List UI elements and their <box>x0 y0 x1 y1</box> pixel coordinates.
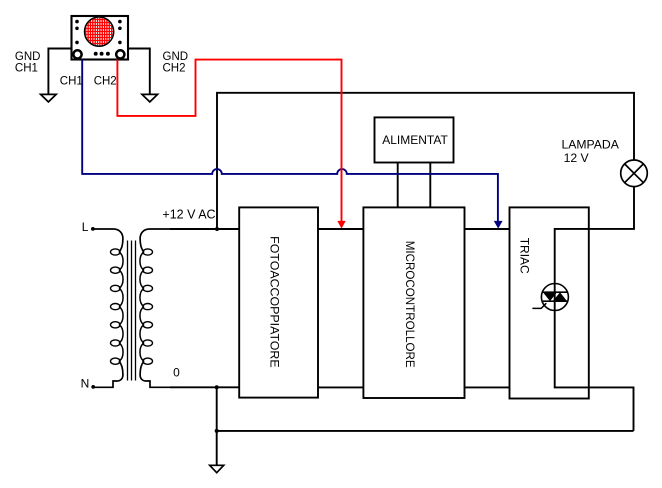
wire CH2 probe (red) <box>117 60 341 222</box>
block MICROCONTROLLORE <box>363 207 464 398</box>
block ALIMENTAT <box>375 117 454 162</box>
svg-text:FOTOACCOPPIATORE: FOTOACCOPPIATORE <box>268 236 282 368</box>
junction 0 rail <box>215 385 219 389</box>
wire CH1 probe (blue) <box>82 60 498 222</box>
svg-text:N: N <box>81 377 90 391</box>
block TRIAC <box>510 207 589 398</box>
junction bottom return <box>215 429 219 433</box>
svg-text:TRIAC: TRIAC <box>517 238 531 274</box>
wire 0 rail to ground <box>216 387 218 465</box>
node L terminal <box>91 227 95 231</box>
svg-text:0: 0 <box>173 366 180 380</box>
svg-text:+12 V AC: +12 V AC <box>162 208 215 222</box>
svg-text:L: L <box>82 220 89 234</box>
svg-text:CH2: CH2 <box>163 62 186 74</box>
oscilloscope U1 <box>72 16 129 60</box>
ground GND CH2 <box>142 94 158 102</box>
wire top rail to lamp <box>217 93 634 229</box>
wire bottom return rail <box>217 430 634 432</box>
ground main <box>210 465 224 472</box>
label GND CH2 <box>163 51 189 74</box>
wire MICROCONTROLLORE to TRIAC bottom <box>465 386 510 388</box>
wire scope GND CH1 to ground <box>48 49 71 95</box>
label LAMPADA 12 V <box>562 138 620 165</box>
wire FOTOACCOPPIATORE to MICROCONTROLLORE top <box>318 228 363 230</box>
primary winding <box>93 229 123 252</box>
wire ALIMENTAT pin 1 <box>397 163 399 208</box>
transformer core <box>128 241 136 381</box>
node N terminal <box>91 385 95 389</box>
wire lamp to triac <box>555 187 634 431</box>
wire FOTOACCOPPIATORE to MICROCONTROLLORE bottom <box>318 386 363 388</box>
svg-text:LAMPADA: LAMPADA <box>562 138 620 152</box>
lamp LAMPADA <box>621 160 648 187</box>
label GND CH1 <box>15 51 41 74</box>
svg-text:CH1: CH1 <box>15 62 38 74</box>
arrowhead CH2 probe <box>337 221 345 229</box>
svg-text:CH1: CH1 <box>60 75 83 87</box>
arrowhead CH1 probe <box>494 221 503 229</box>
wire MICROCONTROLLORE to TRIAC top <box>465 228 510 230</box>
svg-text:ALIMENTAT: ALIMENTAT <box>382 133 448 147</box>
wire 0 rail transformer to FOTOACCOPPIATORE <box>170 386 239 388</box>
transformer T1 <box>93 229 170 387</box>
wire +12V rail transformer to FOTOACCOPPIATORE <box>170 228 239 230</box>
secondary winding <box>140 229 170 252</box>
triac Q1 <box>532 284 568 311</box>
wire scope GND CH2 to ground <box>128 49 150 95</box>
ground GND CH1 <box>41 94 57 102</box>
svg-text:12 V: 12 V <box>564 151 590 165</box>
svg-text:MICROCONTROLLORE: MICROCONTROLLORE <box>403 241 416 368</box>
block FOTOACCOPPIATORE <box>239 207 318 397</box>
junction +12V rail <box>215 227 219 231</box>
wire ALIMENTAT pin 2 <box>429 163 431 208</box>
svg-text:CH2: CH2 <box>94 75 117 87</box>
